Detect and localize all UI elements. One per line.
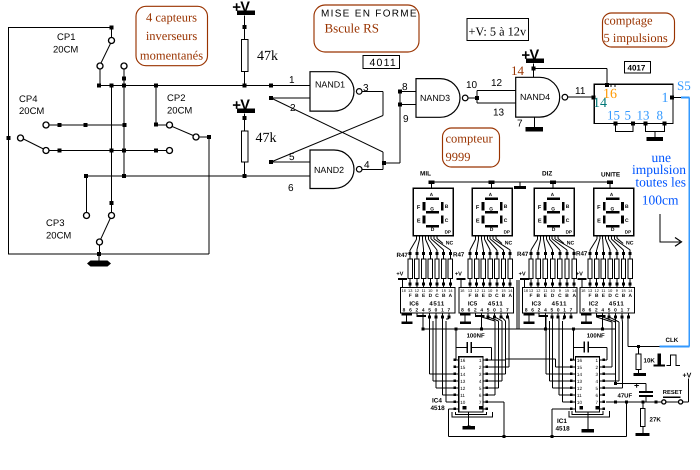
svg-text:15: 15 [565,288,569,293]
svg-text:3: 3 [363,83,369,94]
svg-text:12: 12 [577,386,583,391]
svg-text:5: 5 [608,307,611,313]
svg-text:4511: 4511 [429,301,444,308]
svg-text:A: A [449,293,453,299]
svg-text:CP1: CP1 [57,32,75,43]
svg-text:CP4: CP4 [19,94,37,105]
svg-text:4511: 4511 [552,301,567,308]
svg-text:2: 2 [415,307,418,313]
decoder IC6 4511 [400,288,455,313]
svg-text:9: 9 [436,288,438,293]
svg-text:MIL: MIL [420,170,431,177]
svg-text:IC2: IC2 [589,301,599,308]
svg-text:12: 12 [415,288,419,293]
wire NAND2 output to NAND1 pin2 cross [362,168,383,170]
wire IC1 under-chip loops [572,411,603,415]
svg-text:3: 3 [479,372,482,377]
wire nest IC3 to IC1 [545,317,547,374]
wire fan display 4 to resistors [596,236,598,240]
svg-text:20CM: 20CM [46,231,71,242]
svg-text:D: D [429,293,433,299]
arrow 100cm to wire [660,214,680,242]
resistor 27K [642,402,644,409]
svg-text:10: 10 [577,400,583,405]
svg-text:NAND1: NAND1 [315,80,345,90]
wire fan display 2 to resistors [475,236,477,240]
node +V tap drop IC5 [475,315,485,317]
wire display supply bus [432,181,610,183]
svg-text:27K: 27K [650,417,662,424]
svg-text:B: B [622,293,626,299]
svg-text:NAND4: NAND4 [520,92,550,102]
svg-text:2: 2 [538,307,541,313]
svg-text:15: 15 [442,288,446,293]
svg-text:100NF: 100NF [467,332,485,339]
wire NAND4 output to 4017 [568,96,595,98]
display tens (DIZ) [534,188,574,236]
wire IC1 pin9 to reset bus [552,408,571,410]
svg-text:D: D [552,227,556,233]
svg-text:NAND3: NAND3 [420,93,450,103]
node +V tap drop IC2 [596,315,606,317]
svg-text:8: 8 [525,307,528,313]
svg-text:7: 7 [627,307,630,313]
wire IC3 pin jog to nest [564,317,566,319]
svg-text:B: B [565,293,569,299]
svg-text:B: B [442,293,446,299]
svg-text:6: 6 [409,307,412,313]
svg-text:11: 11 [577,393,582,398]
svg-text:DP: DP [566,230,572,235]
svg-text:1: 1 [479,358,482,363]
wire CP1 left throw to bus1 [99,69,101,85]
svg-text:11: 11 [575,86,586,97]
svg-text:R47: R47 [576,251,588,258]
node +V tap drop IC6 [416,315,426,317]
svg-text:F: F [589,293,592,299]
wire IC5 bottom pin stubs [462,312,464,315]
wire IC2 bottom pin stubs [583,312,585,315]
svg-text:3: 3 [596,372,599,377]
wire CP3 left throw to bus2 [86,176,88,213]
svg-text:6: 6 [589,307,592,313]
svg-text:9: 9 [403,114,409,125]
wire nest IC2 to IC1 right pins [596,317,612,322]
ground IC6 [401,314,412,316]
svg-text:13: 13 [637,108,650,123]
svg-text:12: 12 [491,78,503,89]
svg-text:7: 7 [447,307,450,313]
svg-text:+V: +V [576,271,583,277]
svg-text:1: 1 [563,307,566,313]
svg-text:B: B [502,293,506,299]
svg-text:4: 4 [596,379,599,384]
svg-text:F: F [469,293,472,299]
svg-text:13: 13 [577,379,583,384]
svg-text:C: C [435,293,439,299]
svg-text:15: 15 [607,108,620,123]
svg-text:13: 13 [460,379,466,384]
wire NAND2 output to NAND3 inputs [383,162,400,164]
wire blue pulse S5 to CLK [681,97,689,99]
wire carry IC4 to IC1 [487,359,506,361]
label box compteur 9999 [443,128,500,167]
svg-text:16: 16 [460,358,466,363]
svg-text:NAND2: NAND2 [314,165,344,175]
wire IC6 pin jog to nest [448,317,450,319]
svg-text:CP2: CP2 [167,93,185,104]
svg-text:F: F [538,205,542,211]
svg-text:7: 7 [570,307,573,313]
svg-text:14: 14 [577,372,583,377]
svg-text:4511: 4511 [609,301,624,308]
svg-text:4: 4 [479,379,482,384]
svg-text:15: 15 [621,288,625,293]
svg-text:+V: 5 à 12v: +V: 5 à 12v [469,25,527,39]
decoder IC2 4511 [580,288,635,313]
decoder IC5 4511 [459,288,514,313]
pulse symbol filled [658,354,661,365]
svg-text:CLK: CLK [666,337,679,344]
svg-text:10K: 10K [644,358,656,365]
svg-text:A: A [572,293,576,299]
svg-text:R47: R47 [453,252,465,259]
ground IC2 [581,314,592,316]
svg-text:4511: 4511 [488,301,503,308]
label box comptage 5 impulsions [603,13,675,47]
svg-text:4: 4 [422,307,425,313]
svg-text:compteur: compteur [446,132,494,146]
svg-text:C: C [495,293,499,299]
svg-text:13: 13 [408,288,412,293]
svg-text:momentanés: momentanés [140,49,203,63]
resistor R2 47k [244,114,246,132]
svg-text:B: B [566,204,570,210]
svg-text:1: 1 [662,91,669,106]
svg-text:8: 8 [402,82,408,93]
svg-text:0: 0 [435,307,438,313]
svg-text:5: 5 [550,307,553,313]
svg-text:+V: +V [683,373,692,380]
svg-text:DIZ: DIZ [542,170,552,177]
svg-text:4 capteurs: 4 capteurs [146,11,197,25]
svg-text:4: 4 [544,307,547,313]
svg-text:16: 16 [402,288,406,293]
op-amp U1 NAND1 [310,72,354,111]
ground IC5 [460,314,471,316]
svg-text:F: F [597,205,601,211]
svg-text:1: 1 [289,75,295,86]
wire +V drop to IC1 pin16 [572,328,575,331]
svg-text:4017: 4017 [628,64,646,73]
label 4017 [624,61,650,73]
wire vertical to CP3 right throw [111,86,113,213]
ground IC1 [587,412,589,429]
svg-text:16: 16 [577,358,583,363]
wire +V drop to IC4 pin16 [455,329,457,360]
svg-text:NC: NC [567,240,575,246]
svg-text:+V: +V [519,271,526,277]
svg-text:6: 6 [479,393,482,398]
svg-text:1: 1 [621,307,624,313]
svg-text:2: 2 [595,307,598,313]
wire gather +V rail line [423,328,615,330]
svg-text:B: B [475,293,479,299]
svg-text:12: 12 [460,386,466,391]
svg-text:B: B [536,293,540,299]
svg-text:4518: 4518 [431,405,446,412]
svg-text:47k: 47k [257,49,278,64]
wire +V to NAND4 pin14 and 4017 pin16 [533,64,535,78]
wire CLK from blue to counters [628,346,659,348]
svg-text:14: 14 [593,96,607,111]
svg-text:D: D [608,293,612,299]
ground 4017 [654,131,656,137]
wire 4017 bottom pins 13-8 link [644,121,648,125]
svg-text:B: B [415,293,419,299]
svg-text:toutes les: toutes les [635,175,686,190]
ground IC4 [468,412,470,426]
svg-text:5: 5 [479,386,482,391]
svg-text:13: 13 [468,288,472,293]
svg-text:9: 9 [496,288,498,293]
svg-text:4518: 4518 [556,426,571,433]
svg-text:C: C [445,218,449,224]
wire bus2 to NAND2 pin6 [86,175,310,177]
svg-text:D: D [431,227,435,233]
wire IC6 bottom pin stubs [403,312,405,315]
svg-text:IC4: IC4 [432,398,442,405]
svg-text:1: 1 [500,307,503,313]
svg-text:100cm: 100cm [642,193,679,208]
wire bus1 to NAND1 pin1 [99,85,310,87]
svg-text:9: 9 [616,288,618,293]
svg-text:4: 4 [480,307,483,313]
svg-text:E: E [538,219,542,225]
svg-text:20CM: 20CM [167,106,192,117]
label box 4 capteurs inverseurs momentanes [136,6,208,65]
svg-text:D: D [490,227,494,233]
svg-text:16: 16 [524,288,528,293]
wire CP2 common to frame right [199,136,209,138]
svg-text:5 impulsions: 5 impulsions [604,31,668,45]
svg-text:A: A [508,293,512,299]
svg-text:100NF: 100NF [587,332,605,339]
svg-text:E: E [597,219,601,225]
wire IC4 right pins to IC5 nest [487,366,509,368]
wire IC4 pin7 to reset bus [487,401,504,403]
svg-text:CP3: CP3 [46,218,64,229]
svg-text:6: 6 [596,393,599,398]
wire reset bus bottom [448,436,626,438]
svg-text:B: B [625,204,629,210]
svg-text:IC6: IC6 [409,301,419,308]
pulse symbol outline [667,355,681,366]
svg-text:B: B [595,293,599,299]
resistor 10K [638,347,640,355]
wire 47uF top link [616,383,647,385]
svg-text:11: 11 [481,288,485,293]
svg-text:15: 15 [460,365,466,370]
display hundreds [472,188,512,236]
node supply T tap [519,182,521,186]
wire nest IC6 to IC4 [429,317,431,374]
svg-text:F: F [476,205,480,211]
svg-text:20CM: 20CM [19,106,44,117]
svg-text:6: 6 [468,307,471,313]
wire 4017 pin1 out [670,96,674,100]
wire IC4 under-chip loops [455,412,486,415]
svg-text:C: C [558,293,562,299]
svg-text:C: C [625,218,629,224]
svg-text:DP: DP [625,230,631,235]
svg-text:14: 14 [511,63,525,78]
svg-text:11: 11 [460,393,465,398]
svg-text:13: 13 [493,108,505,119]
svg-text:10: 10 [460,400,466,405]
resistor pack R47 group 1 [409,252,412,255]
svg-text:5: 5 [428,307,431,313]
svg-text:47UF: 47UF [618,393,633,400]
svg-text:9999: 9999 [446,150,471,164]
counter IC1 4518 [575,357,599,412]
svg-text:+V: +V [396,271,403,277]
svg-text:9: 9 [559,288,561,293]
svg-text:B: B [504,204,508,210]
label box MISE EN FORME / Bscule RS [314,5,419,52]
wire CP3 common to bottom frame [99,245,101,254]
svg-text:2: 2 [596,365,599,370]
ground NAND4 [533,117,535,127]
svg-text:6: 6 [288,183,294,194]
svg-text:15: 15 [577,365,583,370]
svg-text:11: 11 [543,288,547,293]
svg-text:8: 8 [657,108,664,123]
wire reset line [606,401,662,403]
svg-text:0: 0 [614,307,617,313]
svg-text:7: 7 [596,400,599,405]
svg-text:1: 1 [441,307,444,313]
ground IC3 [524,314,535,316]
svg-text:D: D [488,293,492,299]
op-amp U1 NAND2 [310,150,354,189]
svg-text:D: D [611,227,615,233]
svg-text:DP: DP [445,230,451,235]
node +V tap drop IC3 [539,315,549,317]
svg-text:11: 11 [422,288,426,293]
svg-text:NC: NC [446,240,454,246]
svg-text:E: E [417,219,421,225]
svg-text:8: 8 [403,307,406,313]
svg-text:C: C [566,218,570,224]
label 4011 [363,56,400,69]
svg-text:C: C [615,293,619,299]
svg-text:F: F [530,293,533,299]
svg-text:+V: +V [455,271,462,277]
display units (UNITE) [594,188,634,236]
svg-text:15: 15 [501,288,505,293]
svg-text:0: 0 [557,307,560,313]
resistor pack R47 group 4 [589,252,592,255]
svg-text:B: B [445,204,449,210]
label box +V 5 a 12v [467,19,529,41]
svg-text:A: A [628,293,632,299]
wire CP2 common drop right side [208,137,210,254]
wire frame left loop [9,28,210,255]
svg-text:7: 7 [479,400,482,405]
svg-text:F: F [409,293,412,299]
svg-text:DP: DP [504,230,510,235]
svg-text:12: 12 [475,288,479,293]
svg-text:6: 6 [531,307,534,313]
svg-text:R47: R47 [517,251,529,258]
svg-text:8: 8 [582,307,585,313]
wire NAND2 pin5 [271,161,310,163]
svg-text:C: C [504,218,508,224]
wire 4017 bottom pins 15-5 link [614,121,618,125]
svg-text:E: E [476,219,480,225]
node frame top corner [110,26,114,30]
wire NAND1 pin2 [271,97,310,99]
resistor pack R47 group 3 [530,252,533,255]
svg-text:D: D [551,293,555,299]
svg-text:11: 11 [601,288,605,293]
wire CP4 bottom throw line y150 [49,150,167,152]
svg-text:+: + [634,381,639,391]
svg-text:MISE EN FORME: MISE EN FORME [321,9,418,20]
switch CP1 [111,28,113,38]
counter IC4 4518 [459,357,483,412]
svg-text:0: 0 [493,307,496,313]
svg-text:NC: NC [626,240,634,246]
resistor R1 47k [244,16,246,40]
counter U2 4017 box [594,84,673,123]
resistor pack R47 group 2 [469,252,472,255]
svg-text:inverseurs: inverseurs [146,29,198,43]
svg-text:5: 5 [487,307,490,313]
svg-text:12: 12 [536,288,540,293]
wire fan display 1 to resistors [416,236,418,240]
svg-text:Bscule RS: Bscule RS [325,21,380,36]
svg-text:IC3: IC3 [532,301,542,308]
svg-text:IC1: IC1 [557,418,567,425]
wire NAND3 output to NAND4 inputs [475,96,479,100]
decoder IC3 4511 [523,288,578,313]
wire NAND1 output to NAND2 pin5 cross [362,91,383,93]
svg-text:16: 16 [581,288,585,293]
svg-text:12: 12 [595,288,599,293]
wire IC4 pin9 to reset bus [448,408,454,410]
svg-text:7: 7 [517,119,523,130]
svg-text:8: 8 [461,307,464,313]
svg-text:14: 14 [460,372,466,377]
svg-text:comptage: comptage [604,14,653,28]
svg-text:S5: S5 [677,78,691,93]
svg-text:R47: R47 [397,252,409,259]
svg-text:F: F [417,205,421,211]
svg-text:5: 5 [596,386,599,391]
svg-text:UNITE: UNITE [601,172,621,179]
svg-text:13: 13 [588,288,592,293]
svg-text:7: 7 [506,307,509,313]
ground main frame [98,254,100,261]
svg-text:5: 5 [625,108,632,123]
svg-text:NC: NC [505,240,513,246]
svg-text:2: 2 [474,307,477,313]
wire reset drop to bus [625,402,627,437]
wire CP1 right throw vertical x124 [123,69,125,176]
op-amp U1 NAND4 [516,77,560,117]
